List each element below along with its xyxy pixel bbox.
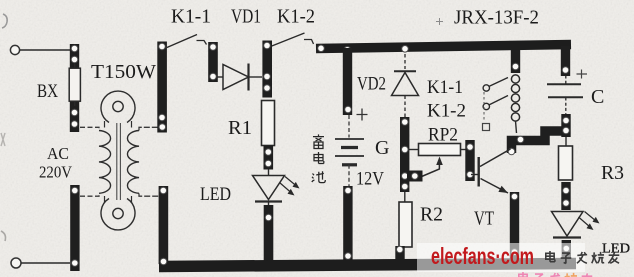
svg-text:VT: VT	[474, 208, 494, 230]
switch K1-1 contact	[167, 35, 207, 48]
watermark 子	[561, 253, 572, 264]
LED (power indicator right)	[552, 212, 597, 238]
svg-text:R1: R1	[228, 117, 252, 139]
transformer T top mounting ring	[101, 91, 135, 127]
junction beads battery bottom	[345, 187, 352, 259]
svg-text:G: G	[375, 137, 389, 159]
svg-text:VD2: VD2	[357, 74, 386, 95]
junction bead R2 bottom	[397, 246, 404, 253]
resistor R2	[399, 192, 412, 247]
watermark 电	[546, 251, 555, 262]
svg-text:RP2: RP2	[428, 125, 458, 146]
wire wiper stub bar	[407, 171, 423, 182]
junction beads on left bar lower	[72, 187, 79, 266]
svg-text:T150W: T150W	[91, 61, 156, 83]
resistor R1	[262, 101, 275, 146]
battery G plates	[335, 139, 364, 165]
wire primary top lead	[80, 127, 99, 130]
svg-text:R2: R2	[420, 204, 443, 226]
wire below LED to bottom rail	[264, 205, 274, 262]
VT emitter arrow head	[498, 186, 508, 193]
capacitor polarity mark	[577, 70, 588, 79]
svg-text:LED: LED	[200, 184, 231, 205]
svg-text:LED: LED	[602, 242, 630, 257]
wire primary bottom lead	[80, 193, 99, 196]
wire from top terminal	[20, 49, 70, 51]
bottom rail	[159, 264, 576, 267]
wire from bottom terminal	[21, 262, 70, 264]
wire between R1 and LED	[264, 146, 274, 170]
junction bead bottom rail left corner	[160, 258, 167, 265]
relay linkage dashed	[483, 92, 485, 121]
switch K1-2 contact	[272, 33, 314, 46]
wire R3 to LED stub	[561, 182, 570, 210]
junction bead LED bottom	[563, 245, 570, 252]
svg-text:K1-2: K1-2	[427, 101, 466, 122]
wire left bar below fuse	[70, 99, 79, 132]
junction bead wiper	[412, 173, 419, 180]
wire left bar upper (above fuse)	[70, 44, 79, 69]
junction beads on VD1-R1 bar	[264, 42, 271, 91]
svg-text:AC: AC	[47, 144, 69, 163]
relay coil K1	[511, 75, 519, 133]
top rail	[316, 45, 571, 49]
watermark 发	[577, 252, 587, 263]
svg-text:JRX-13F-2: JRX-13F-2	[454, 7, 539, 29]
diode VD2	[392, 54, 419, 117]
junction beads on K1-1 bar	[210, 44, 217, 80]
wire cap bottom / R3 top stub	[561, 114, 570, 137]
wire LED to bottom rail	[562, 240, 571, 260]
junction beads on top rail	[318, 45, 409, 53]
wire rail corner stub to capacitor	[561, 46, 570, 76]
junction beads on left bar upper	[71, 45, 78, 127]
wire R2 to bottom rail	[395, 246, 404, 262]
junction bead coil top	[512, 63, 519, 70]
junction beads on stair	[508, 136, 524, 155]
diode VD1	[217, 64, 262, 91]
junction beads on S1	[159, 43, 166, 130]
capacitor C	[547, 76, 583, 116]
svg-text:K1-2: K1-2	[277, 6, 315, 28]
pink partial watermark row (clipped at bottom)	[519, 272, 592, 277]
svg-text:BX: BX	[37, 81, 58, 102]
watermark 友	[608, 252, 619, 263]
wire bar at VD1 cathode / R1 top	[262, 41, 272, 98]
svg-text:220V: 220V	[39, 163, 73, 182]
junction beads on VD2-R2 bar	[402, 119, 409, 190]
relay terminal c mark	[483, 124, 490, 131]
wire secondary bottom lead	[139, 193, 159, 196]
junction bead battery top	[345, 106, 352, 113]
svg-text:elecfans·com: elecfans·com	[431, 243, 534, 269]
fuse BX	[69, 64, 80, 106]
watermark 烧	[592, 252, 604, 263]
junction bead on S2	[160, 187, 167, 194]
junction bead above capacitor	[562, 67, 569, 74]
transistor VT	[471, 149, 511, 193]
battery feed bar from rail	[343, 48, 352, 115]
junction beads right of RP2	[467, 144, 474, 178]
junction beads R1-LED	[265, 149, 272, 167]
scan smudge bottom-left	[1, 231, 6, 241]
relay contact K1-1 (schematic)	[483, 78, 508, 92]
transformer secondary winding	[127, 131, 139, 194]
potentiometer RP2	[409, 144, 466, 156]
label 畜 (battery, vertical)	[313, 134, 324, 148]
transformer core	[117, 123, 121, 200]
label 池 (battery, vertical)	[312, 171, 326, 182]
resistor R3	[559, 137, 573, 180]
junction beads below R3	[563, 187, 570, 206]
wire relay coil feed from rail	[511, 50, 520, 73]
watermark wash overlay	[417, 243, 585, 272]
svg-text:VD1: VD1	[231, 6, 261, 28]
svg-text:R3: R3	[601, 162, 624, 184]
plus mark at battery	[357, 109, 368, 121]
relay contact K1-2 (schematic)	[483, 96, 508, 110]
svg-text:C: C	[591, 86, 604, 108]
wire dash below battery	[348, 165, 350, 187]
wire emitter to bottom rail	[510, 192, 519, 262]
wire bar VD2 to RP2/R2	[400, 117, 409, 192]
transformer T bottom mounting ring	[101, 196, 135, 230]
wire bar right of RP2	[465, 140, 474, 181]
wire secondary top lead	[139, 127, 158, 130]
junction bead below LED	[265, 214, 272, 221]
LED light arrows heads	[288, 189, 295, 196]
RP2 wiper arrow	[436, 157, 443, 166]
svg-text:K1-1: K1-1	[427, 77, 463, 98]
LED (charging indicator)	[253, 169, 297, 208]
wire secondary-side bar lower (S2)	[159, 186, 169, 264]
wire left bar lower segment	[70, 185, 79, 271]
LED right arrows heads	[587, 223, 594, 230]
battery return bar to bottom rail	[343, 186, 352, 262]
scan smudge mid-left	[1, 133, 5, 146]
wire bar under K1-1	[208, 42, 218, 82]
scan smudge top-left	[2, 14, 7, 28]
svg-text:K1-1: K1-1	[171, 6, 211, 28]
svg-text:12V: 12V	[356, 169, 384, 190]
mark near JRX label	[436, 18, 443, 25]
terminal AC bottom	[11, 258, 21, 268]
transformer primary winding	[99, 131, 111, 194]
wire stair from coil/collector to C/R3 node	[512, 131, 567, 153]
junction beads emitter	[511, 193, 518, 255]
wire dash to battery	[348, 115, 350, 138]
terminal AC top	[10, 45, 19, 54]
wire secondary-side bar upper (S1)	[157, 42, 167, 133]
label 电 (battery, vertical)	[314, 152, 324, 164]
junction beads cap bottom	[563, 117, 570, 134]
